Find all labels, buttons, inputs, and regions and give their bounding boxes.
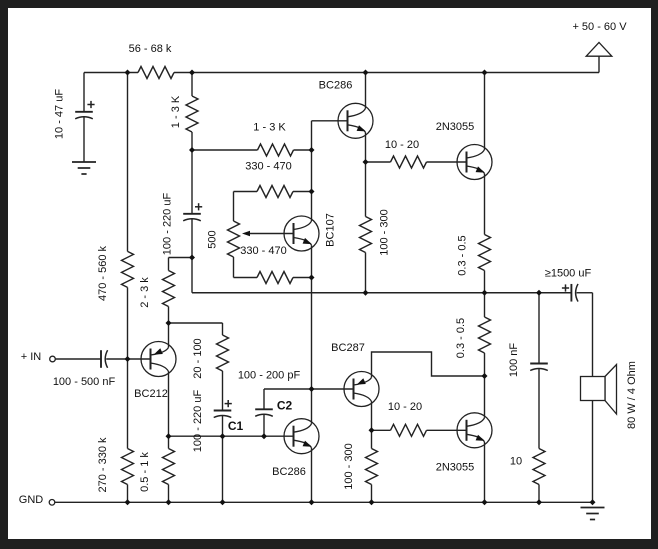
svg-text:BC286: BC286 xyxy=(319,80,353,92)
svg-text:330 - 470: 330 - 470 xyxy=(240,245,286,257)
svg-text:100 nF: 100 nF xyxy=(508,343,520,378)
svg-text:100 - 200 pF: 100 - 200 pF xyxy=(238,370,301,382)
svg-text:100 - 300: 100 - 300 xyxy=(379,209,391,255)
svg-text:270 - 330 k: 270 - 330 k xyxy=(97,437,109,493)
svg-text:100 - 300: 100 - 300 xyxy=(343,443,355,489)
svg-text:100 - 500 nF: 100 - 500 nF xyxy=(53,376,116,388)
svg-text:80 W / 4 Ohm: 80 W / 4 Ohm xyxy=(626,361,638,429)
svg-text:100 - 220 uF: 100 - 220 uF xyxy=(162,193,174,256)
svg-text:330 - 470: 330 - 470 xyxy=(245,161,291,173)
svg-text:10: 10 xyxy=(510,456,522,468)
svg-text:1 - 3 K: 1 - 3 K xyxy=(170,95,182,128)
svg-text:1 - 3 K: 1 - 3 K xyxy=(253,122,286,134)
svg-text:10 - 20: 10 - 20 xyxy=(388,401,422,413)
svg-text:BC286: BC286 xyxy=(272,466,306,478)
svg-text:20 - 100: 20 - 100 xyxy=(192,338,204,378)
svg-text:2N3055: 2N3055 xyxy=(436,462,475,474)
svg-text:0.5 - 1 k: 0.5 - 1 k xyxy=(139,452,151,492)
svg-text:56 - 68 k: 56 - 68 k xyxy=(129,43,172,55)
svg-text:BC107: BC107 xyxy=(325,213,337,247)
svg-text:C1: C1 xyxy=(228,419,244,433)
svg-text:0.3 - 0.5: 0.3 - 0.5 xyxy=(455,318,467,358)
svg-text:GND: GND xyxy=(19,494,44,506)
svg-text:0.3 - 0.5: 0.3 - 0.5 xyxy=(457,235,469,275)
svg-text:+ 50 - 60 V: + 50 - 60 V xyxy=(572,21,627,33)
svg-text:2 - 3 k: 2 - 3 k xyxy=(139,277,151,308)
svg-text:500: 500 xyxy=(207,230,219,248)
svg-text:470 - 560 k: 470 - 560 k xyxy=(97,245,109,301)
svg-text:BC287: BC287 xyxy=(331,342,365,354)
svg-text:10 - 20: 10 - 20 xyxy=(385,139,419,151)
svg-text:≥1500 uF: ≥1500 uF xyxy=(545,268,592,280)
svg-text:10 - 47 uF: 10 - 47 uF xyxy=(54,89,66,139)
svg-text:2N3055: 2N3055 xyxy=(436,121,475,133)
svg-text:+ IN: + IN xyxy=(21,351,42,363)
svg-text:100 - 220 uF: 100 - 220 uF xyxy=(192,390,204,453)
svg-text:C2: C2 xyxy=(277,399,293,413)
svg-text:BC212: BC212 xyxy=(134,388,168,400)
